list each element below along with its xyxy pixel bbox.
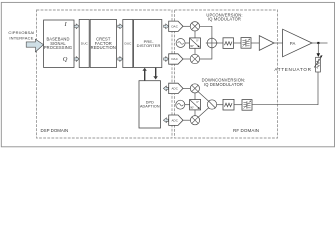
summer: [206, 37, 218, 49]
svg-text:ADAPTION: ADAPTION: [140, 105, 160, 109]
splitter: [207, 100, 216, 109]
thick arrow DPD adaption to pre-distorter (up): [142, 68, 146, 81]
arrow CFR to DUC2 (I): [118, 24, 123, 29]
svg-text:CIPRI/OBSAI: CIPRI/OBSAI: [8, 30, 34, 35]
90 degree phase splitter (downconversion): [190, 100, 201, 110]
svg-text:ATTENUATOR: ATTENUATOR: [274, 67, 311, 72]
thick arrow pre-distorter to DPD adaption (down): [153, 68, 158, 80]
wire LO1 to phase splitter 1: [185, 42, 189, 44]
baseband signal processing block: [44, 20, 74, 68]
svg-text:PROCESSING: PROCESSING: [44, 45, 72, 50]
wire splitter to mixer4: [198, 108, 208, 117]
DPD adaption block: [139, 81, 161, 128]
wire DAC2 to mixer2: [183, 58, 190, 60]
wire balun1 to driver amp: [251, 42, 259, 44]
CIPRI/OBSAI interface label: [8, 30, 34, 41]
RX filter: [223, 99, 234, 110]
mixer M3: [190, 84, 199, 93]
DUC block 1: [79, 20, 89, 68]
svg-text:INTERFACE: INTERFACE: [9, 35, 33, 40]
local oscillator LO2: [176, 100, 185, 109]
svg-text:PA: PA: [290, 41, 296, 46]
ADC 2: [169, 115, 183, 125]
svg-text:REDUCTION: REDUCTION: [91, 45, 116, 50]
arrow CFR to DUC2 (Q): [118, 57, 123, 62]
arrow pre-distorter to DAC1: [164, 24, 169, 29]
local oscillator LO1: [176, 39, 185, 48]
wire splitter to mixer3: [198, 92, 209, 102]
wire balun2 to RX filter: [234, 104, 242, 106]
wire coupler to attenuator with arrow: [317, 43, 321, 57]
arrow pre-distorter to DAC2: [164, 57, 169, 62]
svg-text:DSP DOMAIN: DSP DOMAIN: [41, 128, 69, 133]
svg-text:Q: Q: [63, 56, 68, 63]
svg-text:0°: 0°: [196, 101, 198, 104]
wire LO2 to phase splitter 2: [185, 104, 190, 106]
DSP domain box: [37, 10, 173, 138]
mixer M2: [190, 54, 199, 63]
wire phase splitter1 to mixer2: [194, 48, 196, 54]
svg-text:ADC: ADC: [171, 87, 177, 91]
arrow baseband to DUC1 (I): [74, 24, 79, 29]
svg-text:DAC: DAC: [171, 57, 177, 61]
mixer M1: [190, 22, 199, 31]
wire mixer3 to ADC1: [183, 87, 190, 89]
attenuator: [314, 55, 322, 72]
svg-text:DUC: DUC: [81, 42, 89, 46]
svg-text:90°: 90°: [190, 45, 194, 48]
power amplifier PA: [283, 29, 312, 57]
arrow ADC2 to DPD adaption: [163, 118, 168, 123]
arrow baseband to DUC1 (Q): [74, 57, 79, 62]
wire phase splitter2 to mixer4: [194, 110, 196, 116]
coupler node: [317, 42, 319, 44]
upconversion label: [206, 12, 242, 21]
svg-text:RF DOMAIN: RF DOMAIN: [233, 128, 259, 133]
svg-text:ADC: ADC: [171, 118, 177, 122]
wire phase splitter1 to mixer1: [194, 31, 196, 38]
svg-text:IQ MODULATOR: IQ MODULATOR: [208, 17, 241, 22]
input block arrow: [26, 39, 43, 52]
DUC block 2: [123, 20, 133, 68]
ADC 1: [169, 83, 183, 93]
wire RX filter to splitter: [217, 104, 223, 106]
balun 1: [241, 38, 251, 49]
svg-text:IQ DEMODULATOR: IQ DEMODULATOR: [204, 82, 243, 87]
RF domain box: [175, 10, 278, 138]
wire driver amp to PA: [274, 42, 283, 44]
DAC 1: [169, 21, 183, 31]
svg-text:DISTORTER: DISTORTER: [137, 43, 161, 48]
pre-distorter block: [134, 20, 162, 68]
wire TX filter to balun1: [234, 42, 242, 44]
svg-text:DUC: DUC: [124, 42, 132, 46]
wire summer to TX filter: [217, 42, 223, 44]
wire mixer2 to summer: [200, 48, 212, 59]
svg-text:90°: 90°: [190, 107, 194, 110]
TX filter: [223, 38, 234, 49]
balun 2: [242, 100, 252, 111]
feedback wire attenuator to balun2: [252, 72, 318, 105]
svg-text:0°: 0°: [196, 40, 198, 43]
arrow ADC1 to DPD adaption: [163, 86, 168, 91]
driver amplifier: [259, 36, 274, 51]
mixer M4: [190, 116, 199, 125]
wire mixer1 to summer: [200, 26, 212, 38]
wire PA output: [312, 42, 328, 44]
wire DAC1 to mixer1: [183, 25, 190, 27]
wire phase splitter2 to mixer3: [194, 93, 196, 100]
crest factor reduction block: [90, 20, 116, 68]
90 degree phase splitter (upconversion): [190, 38, 201, 48]
DAC 2: [169, 54, 183, 64]
downconversion label: [202, 78, 246, 87]
svg-text:DAC: DAC: [171, 25, 177, 29]
wire mixer4 to ADC2: [183, 119, 190, 121]
